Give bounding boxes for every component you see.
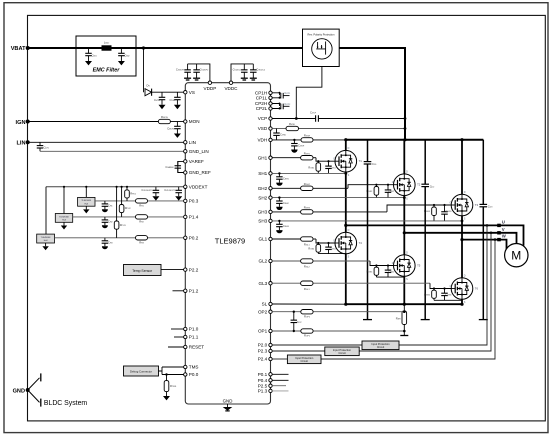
wire GL3 gate line — [272, 282, 300, 284]
wire CP1 stubs — [272, 93, 279, 98]
capacitor C_VSD between VSD and VDH — [273, 129, 280, 140]
pin CP2L — [269, 107, 272, 110]
wire T5 drain from phase V — [403, 233, 405, 255]
wire P2.5 stub — [272, 385, 286, 387]
wire hall 3 output to P0.2 — [55, 237, 136, 239]
resistor R_H3 series — [136, 236, 148, 240]
pin P2.5 — [269, 384, 272, 387]
transistor T1 high-side phase U — [333, 147, 356, 177]
resistor R_GL1 — [301, 237, 313, 241]
capacitor C_filter2 — [118, 48, 125, 61]
wire P0.4 stub — [272, 379, 288, 381]
svg-text:RESET: RESET — [189, 345, 205, 350]
svg-text:SH3: SH3 — [258, 219, 267, 224]
wire phase U bus (thick) — [346, 225, 524, 245]
wire VDH drain rail (thick) — [346, 139, 484, 141]
svg-text:CGS4: CGS4 — [330, 248, 337, 251]
pin MON — [184, 120, 187, 123]
wire debug connector to TMS and P0.0 — [159, 367, 186, 375]
capacitor C_GS2 — [385, 185, 392, 198]
wire T5 source to SL rail — [403, 277, 405, 305]
resistor R_GS6 — [433, 289, 435, 301]
svg-text:IGN: IGN — [16, 120, 26, 126]
pin VCP — [269, 117, 272, 120]
Debug Connector box — [124, 366, 159, 376]
hall sensor 3 box TLE4906K — [37, 234, 55, 243]
wire hall 1 output to P0.3 — [95, 200, 136, 202]
svg-text:T5: T5 — [417, 264, 421, 268]
ground hall sensor 1 — [85, 206, 87, 209]
resistor R_GS2 — [375, 185, 377, 198]
wire GL1 gate line — [272, 238, 300, 240]
pin GH3 — [269, 210, 272, 213]
svg-text:CGS3: CGS3 — [446, 210, 453, 213]
svg-text:P0.2: P0.2 — [189, 236, 199, 241]
capacitor C_SH1 to ground — [278, 172, 280, 174]
capacitor C_GS5 — [385, 266, 392, 278]
svg-text:P2.2: P2.2 — [189, 267, 199, 272]
resistor R_GL3 — [301, 281, 313, 285]
resistor R_TMS pull-down — [165, 373, 167, 375]
wire SH1 line — [272, 172, 346, 174]
pin SH2 — [269, 196, 272, 199]
svg-text:P2.4: P2.4 — [258, 357, 268, 362]
svg-text:P1.2: P1.2 — [189, 289, 199, 294]
wire T6 source to SL rail — [461, 300, 463, 305]
capacitor C_VDDEXT1 — [153, 187, 160, 196]
svg-text:P0.4: P0.4 — [258, 378, 268, 383]
junction VBAT to reverse-protection diode branch — [142, 46, 145, 49]
pin SL — [269, 302, 272, 305]
wire T2 drain — [403, 140, 405, 174]
wire SH2 line — [272, 197, 404, 199]
GND connector fork symbol — [28, 378, 40, 390]
capacitor C_CP1 — [281, 93, 283, 99]
pin VDDC — [229, 81, 232, 84]
capacitor C_VDDP2 — [193, 64, 200, 78]
capacitor C_DC2 leg from drain rail to ground — [424, 140, 426, 184]
svg-text:P0.3: P0.3 — [189, 199, 199, 204]
pin P1.4 — [184, 215, 187, 218]
wire OP2 sense line — [272, 311, 301, 313]
wire rev-polarity box to VCP line — [296, 67, 322, 119]
pin CP1H — [269, 91, 272, 94]
wire hall 2 output to P1.4 — [73, 216, 136, 218]
svg-text:GH1: GH1 — [258, 155, 268, 160]
svg-text:RGS5: RGS5 — [366, 271, 373, 274]
svg-text:GL1: GL1 — [259, 237, 268, 242]
wire VS branch from VBAT — [143, 48, 145, 92]
svg-text:Debug Connector: Debug Connector — [130, 370, 152, 374]
wire P0.1 stub — [272, 373, 288, 375]
resistor R_VDH — [301, 138, 313, 142]
svg-text:VDH: VDH — [257, 138, 267, 143]
svg-text:CGS1: CGS1 — [330, 166, 337, 169]
ground IC GND pin — [227, 404, 229, 407]
capacitor C_DC1 leg from drain rail to ground — [367, 140, 369, 162]
svg-text:M: M — [511, 249, 521, 263]
pin VAREF — [184, 160, 187, 163]
wire VBAT bus — [28, 47, 303, 49]
wire GL2 gate line — [272, 260, 300, 262]
resistor R_GS5 — [375, 266, 377, 278]
wire temp sensor to P2.2 — [161, 269, 185, 271]
capacitor C_VAREF — [175, 161, 182, 172]
wire GND_LIN — [40, 150, 185, 152]
pin CP1L — [269, 96, 272, 99]
svg-text:T1: T1 — [359, 159, 363, 163]
svg-text:VDDEXT: VDDEXT — [189, 185, 208, 190]
capacitor C_VS1 — [159, 92, 166, 105]
resistor R_GH3 — [301, 210, 313, 214]
svg-text:P1.3: P1.3 — [258, 389, 268, 394]
pin P2.2 — [184, 268, 187, 271]
svg-text:LIN: LIN — [16, 141, 25, 147]
resistor R_PU2 pull-up — [121, 187, 123, 217]
capacitor C_VDDEXT2 — [175, 187, 182, 196]
capacitor C_VDDC1 — [241, 64, 248, 78]
svg-text:P1.0: P1.0 — [189, 327, 199, 332]
resistor R_H1 series — [136, 199, 148, 203]
wire SL source rail (thick) — [346, 303, 462, 305]
capacitor C_GS1 — [325, 161, 332, 173]
pin P1.2 — [184, 289, 187, 292]
resistor R_GS1 — [317, 161, 319, 173]
wire GH1 gate line — [272, 157, 300, 159]
pin VS — [184, 91, 187, 94]
svg-text:SH1: SH1 — [258, 171, 267, 176]
wire VS supply from rev-polarity box to bridge (thick) — [339, 48, 405, 140]
wire phase W bus (thick) — [462, 240, 507, 251]
svg-text:GH3: GH3 — [258, 210, 268, 215]
svg-text:BLDC System: BLDC System — [44, 400, 88, 407]
capacitor C_LIN — [37, 142, 44, 151]
capacitor C_DC3 leg from drain rail to ground — [482, 140, 484, 205]
resistor R_PU1 pull-up to VDDEXT — [126, 187, 128, 201]
pin OP2 — [269, 310, 272, 313]
capacitor C_VCP series — [316, 115, 319, 122]
wire diode to VS pin — [152, 91, 186, 93]
svg-text:RGS1: RGS1 — [308, 166, 315, 169]
svg-text:U: U — [502, 219, 505, 224]
Rev. Polarity Protection switch symbol — [312, 39, 332, 59]
svg-text:P0.1: P0.1 — [258, 372, 268, 377]
pin GND_REF — [184, 171, 187, 174]
pin VDDP — [208, 81, 211, 84]
capacitor C_CP2 — [281, 104, 283, 110]
svg-text:CP2L: CP2L — [256, 106, 268, 111]
resistor R_GS4 — [317, 243, 319, 254]
Input Protection Circuit box 1 — [362, 341, 399, 350]
wire LIN to LIN pin — [28, 141, 186, 143]
svg-text:V: V — [502, 227, 505, 232]
wire T4 source to SL rail — [345, 254, 347, 304]
wire VDDC decoupling rail — [231, 64, 253, 83]
ground hall sensor 2 — [63, 222, 65, 225]
capacitor C_H1 — [102, 201, 109, 209]
wire T4 drain from phase U — [345, 225, 347, 232]
resistor R_VSD — [286, 126, 299, 130]
ground shunt bottom — [400, 335, 408, 337]
Input Protection Circuit box 3 — [287, 355, 321, 364]
svg-text:Hall: Hall — [85, 203, 89, 205]
pin P0.1 — [269, 373, 272, 376]
wire hall sensor 2 supply — [63, 187, 65, 214]
svg-text:MON: MON — [189, 119, 200, 124]
resistor R_GH2 — [301, 186, 313, 190]
wire OP1 sense line — [272, 330, 301, 332]
svg-text:RGS6: RGS6 — [424, 294, 431, 297]
transistor T5 low-side phase V — [392, 251, 415, 281]
wire T4 gate-source return — [318, 253, 346, 255]
capacitor C_OP between OP2 and OP1 — [291, 312, 298, 331]
resistor R_OP2 — [301, 310, 313, 314]
EMC filter box — [76, 36, 136, 76]
svg-text:TLE4906K: TLE4906K — [59, 216, 69, 218]
pin P0.3 — [184, 199, 187, 202]
svg-text:Circuit: Circuit — [301, 359, 309, 363]
svg-text:Hall: Hall — [44, 240, 48, 242]
capacitor C_SH2 to ground — [278, 196, 280, 198]
pin CP2H — [269, 102, 272, 105]
capacitor C_GS6 — [441, 289, 448, 301]
motor M1 BLDC — [505, 244, 528, 267]
svg-text:CGS6: CGS6 — [446, 294, 453, 297]
svg-text:VDDC: VDDC — [224, 86, 238, 91]
pin GL1 — [269, 237, 272, 240]
resistor R_GL2 — [301, 259, 313, 263]
wire P1.0 stub — [171, 328, 185, 330]
inductor L_filter — [102, 45, 112, 50]
svg-text:CCP1: CCP1 — [285, 92, 292, 95]
wire IGN to R_MON — [28, 121, 159, 123]
node V — [490, 232, 493, 235]
pin P2.0 — [269, 343, 272, 346]
svg-text:VSD: VSD — [258, 126, 268, 131]
hall sensor 2 box TLE4906K — [55, 214, 72, 223]
svg-text:Hall: Hall — [62, 220, 66, 222]
hall sensor 1 box TLE4906K — [78, 197, 95, 206]
svg-text:CGS5: CGS5 — [388, 271, 395, 274]
wire VDDP decoupling rail — [188, 64, 210, 83]
ground hall sensor 3 — [45, 243, 47, 246]
wire U sense to P2.0 — [399, 225, 487, 345]
capacitor C_H3 — [102, 238, 109, 246]
wire phase V bus (thick) — [404, 233, 516, 244]
svg-text:GND_LIN: GND_LIN — [189, 149, 209, 154]
pin VSD — [269, 127, 272, 130]
wire P1.2 stub — [173, 290, 186, 292]
svg-text:Circuit: Circuit — [377, 345, 385, 349]
svg-text:Rev. Polarity Protection: Rev. Polarity Protection — [308, 32, 335, 36]
pin OP1 — [269, 329, 272, 332]
svg-text:P1.4: P1.4 — [189, 215, 199, 220]
transistor T4 low-side phase U — [333, 229, 356, 259]
svg-text:LIN: LIN — [189, 140, 196, 145]
wire GH2 gate line — [272, 187, 300, 189]
svg-text:CGS2: CGS2 — [388, 190, 395, 193]
pin P1.0 — [184, 327, 187, 330]
wire SL line from pin — [272, 303, 346, 305]
svg-text:EMC Filter: EMC Filter — [93, 68, 121, 74]
svg-text:P1.1: P1.1 — [189, 335, 199, 340]
svg-text:GND: GND — [223, 398, 233, 403]
transistor T2 high-side phase V — [392, 171, 415, 201]
op-amp U1 TLE9879 IC body — [185, 83, 270, 404]
wire V sense to P2.3 — [359, 233, 491, 351]
svg-text:TLE4906K: TLE4906K — [41, 237, 51, 239]
capacitor C_VDH to ground — [293, 139, 295, 141]
wire W sense to P2.4 — [321, 240, 495, 359]
transistor T6 low-side phase W — [450, 274, 473, 304]
svg-text:GL3: GL3 — [259, 281, 268, 286]
capacitor C_filter1 — [85, 48, 92, 61]
pin P0.4 — [269, 379, 272, 382]
svg-text:Temp Sensor: Temp Sensor — [132, 269, 153, 273]
pin VDH — [269, 138, 272, 141]
svg-text:T3: T3 — [475, 203, 479, 207]
wire T5 gate-source return — [376, 276, 404, 278]
svg-text:OP1: OP1 — [258, 329, 268, 334]
capacitor C_H2 — [102, 217, 109, 225]
pin TMS — [184, 365, 187, 368]
Temp Sensor box — [124, 265, 162, 276]
capacitor C_GS3 — [441, 205, 448, 221]
pin GH1 — [269, 156, 272, 159]
capacitor C_VDDC2 — [250, 64, 256, 78]
svg-text:TLE9879: TLE9879 — [215, 236, 245, 245]
wire CP2 stubs — [272, 104, 279, 109]
diode D_V reverse protection — [145, 89, 152, 96]
pin LIN — [184, 141, 187, 144]
node W — [494, 238, 497, 241]
resistor R_GS3 — [433, 205, 435, 221]
svg-text:GND: GND — [13, 388, 25, 394]
svg-text:P2.0: P2.0 — [258, 343, 268, 348]
resistor R_PU3 pull-up — [116, 187, 118, 238]
pin GND_LIN — [184, 150, 187, 153]
resistor R_OP1 — [301, 329, 313, 333]
svg-text:TMS: TMS — [189, 365, 199, 370]
svg-text:CP1L: CP1L — [256, 96, 268, 101]
wire P1.1 stub — [174, 336, 185, 338]
wire T1 drain — [345, 140, 347, 151]
capacitor C_GS4 — [325, 243, 332, 254]
wire VSD line — [272, 128, 286, 130]
svg-text:VDDP: VDDP — [204, 86, 217, 91]
capacitor C_VS2 — [174, 92, 181, 105]
svg-text:OP2: OP2 — [258, 309, 268, 314]
Input Protection Circuit box 2 — [325, 347, 359, 356]
svg-text:Circuit: Circuit — [338, 351, 346, 355]
wire hall sensor 3 supply — [45, 187, 47, 234]
capacitor C_VDDP1 — [184, 64, 191, 78]
pin GL3 — [269, 282, 272, 285]
pin SH3 — [269, 219, 272, 222]
svg-text:TLE4906K: TLE4906K — [81, 200, 91, 202]
wire SH3 line — [272, 220, 462, 222]
svg-text:T4: T4 — [359, 241, 363, 245]
pin SH1 — [269, 172, 272, 175]
svg-text:P0.0: P0.0 — [189, 372, 199, 377]
svg-text:SL: SL — [262, 302, 268, 307]
wire VAREF bracket — [178, 161, 186, 172]
svg-text:VBAT: VBAT — [11, 46, 26, 52]
wire T1 source to phase U — [345, 172, 347, 225]
pin P1.1 — [184, 335, 187, 338]
transistor T3 high-side phase W — [450, 191, 473, 221]
wire T2 source to phase V — [403, 196, 405, 233]
svg-text:GND_REF: GND_REF — [189, 170, 211, 175]
pin P0.0 — [184, 373, 187, 376]
svg-text:VS: VS — [189, 90, 195, 95]
resistor R_MON — [158, 119, 170, 123]
wire T3 source to phase W — [461, 216, 463, 240]
wire T3 drain — [461, 140, 463, 194]
wire hall sensor 1 supply — [85, 187, 87, 198]
wire T6 drain from phase W — [461, 240, 463, 278]
wire T6 gate-source return — [434, 299, 462, 301]
svg-text:CCP2: CCP2 — [285, 103, 292, 106]
wire VDDEXT rail — [46, 186, 185, 188]
pin VDDEXT — [184, 185, 187, 188]
pin P2.4 — [269, 357, 272, 360]
pin GH2 — [269, 187, 272, 190]
svg-text:VAREF: VAREF — [189, 159, 204, 164]
resistor R_shunt — [403, 304, 405, 311]
capacitor C_SH3 to ground — [278, 220, 280, 222]
resistor R_H2 series — [136, 215, 148, 219]
wire GH3 gate line — [272, 211, 300, 213]
capacitor C_MON — [174, 122, 181, 134]
pin P1.3 — [269, 389, 272, 392]
pin RESET — [184, 345, 187, 348]
svg-text:T2: T2 — [417, 183, 421, 187]
svg-text:T6: T6 — [475, 287, 479, 291]
wire R_MON to MON pin — [170, 121, 185, 123]
pin P2.3 — [269, 349, 272, 352]
Rev. Polarity Protection box — [303, 29, 340, 66]
wire VDH line — [272, 139, 301, 141]
pin P0.2 — [184, 236, 187, 239]
wire P1.3 stub — [272, 390, 288, 392]
pin GL2 — [269, 259, 272, 262]
svg-text:P2.3: P2.3 — [258, 349, 268, 354]
svg-text:VCP: VCP — [258, 116, 267, 121]
svg-text:GL2: GL2 — [259, 259, 268, 264]
resistor R_GH1 — [301, 156, 313, 160]
wire RESET stub — [168, 346, 185, 348]
node U — [486, 224, 489, 227]
svg-text:RGS4: RGS4 — [308, 248, 315, 251]
svg-text:SH2: SH2 — [258, 195, 267, 200]
svg-text:GH2: GH2 — [258, 186, 268, 191]
wire VCP line — [272, 118, 315, 120]
